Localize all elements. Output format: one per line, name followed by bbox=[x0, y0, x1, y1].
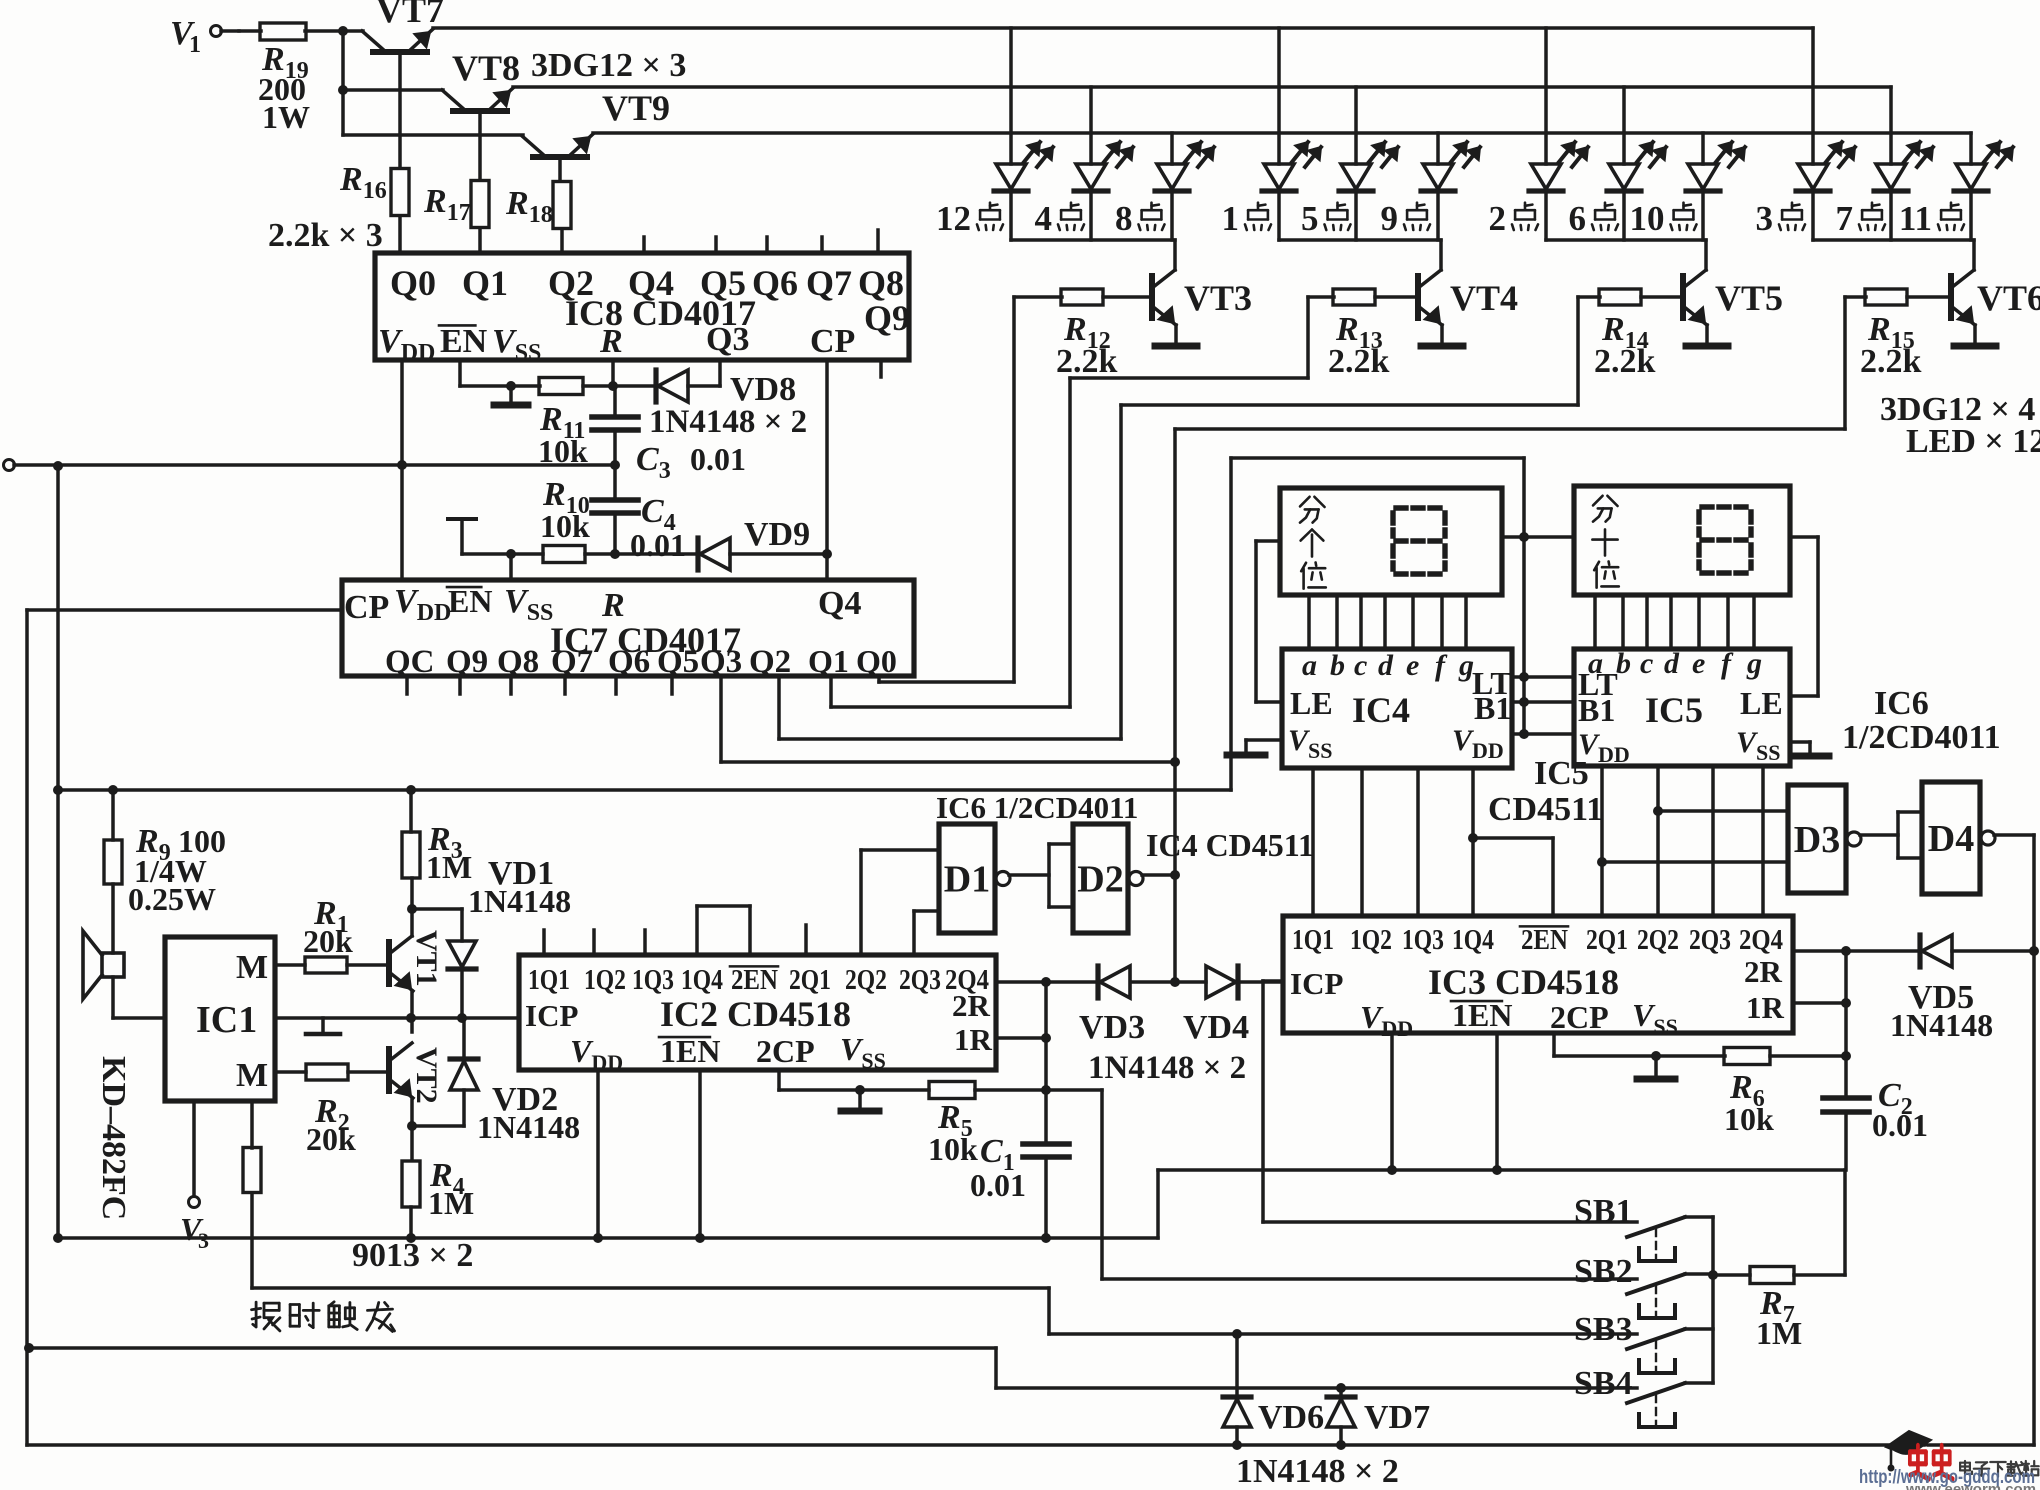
svg-text:VT5: VT5 bbox=[1715, 278, 1783, 318]
IC8 bottom stub bbox=[879, 360, 883, 377]
diode VD1 bbox=[448, 909, 476, 1018]
svg-text:1N4148 × 2: 1N4148 × 2 bbox=[1236, 1453, 1399, 1490]
LED 3点 bbox=[1796, 142, 1855, 191]
wire 2R node vertical bbox=[1844, 951, 1848, 1098]
svg-text:Q2: Q2 bbox=[749, 644, 791, 680]
svg-text:VD6: VD6 bbox=[1258, 1399, 1324, 1436]
wire IC3 VDD down bbox=[1387, 1033, 1397, 1175]
svg-text:SB4: SB4 bbox=[1574, 1365, 1633, 1402]
wire SB bus bbox=[1708, 1217, 1718, 1383]
LED 12点 bbox=[994, 142, 1053, 191]
wire SB2 feed bbox=[1102, 1090, 1637, 1279]
svg-text:KD–482FC: KD–482FC bbox=[95, 1056, 132, 1220]
wire IC1 to V3 bbox=[192, 1101, 196, 1196]
label VT7 bbox=[376, 0, 444, 30]
svg-text:Q1: Q1 bbox=[462, 263, 508, 303]
resistor R18 bbox=[553, 182, 571, 229]
label VT1 bbox=[410, 930, 443, 987]
wire R12 to base bbox=[1103, 295, 1152, 299]
svg-text:2EN: 2EN bbox=[731, 964, 778, 996]
wire VSS tie down bbox=[509, 554, 513, 580]
wire IC4 LE to DS1 bbox=[1256, 541, 1282, 702]
svg-text:1: 1 bbox=[189, 32, 201, 58]
switch SB1 bbox=[1627, 1217, 1713, 1261]
capacitor C4 bbox=[592, 500, 638, 513]
resistor R12 bbox=[1061, 289, 1103, 305]
svg-text:g: g bbox=[1746, 647, 1762, 680]
wire C2 down bbox=[1844, 1112, 1848, 1170]
svg-text:Q5: Q5 bbox=[657, 644, 699, 680]
wire V+ rail bbox=[53, 785, 1231, 795]
label SB2 bbox=[1574, 1253, 1633, 1290]
svg-text:SB3: SB3 bbox=[1574, 1311, 1633, 1348]
wire riser to R13 bbox=[1308, 295, 1334, 299]
label VD8 bbox=[730, 371, 796, 408]
svg-text:VT7: VT7 bbox=[376, 0, 444, 30]
label C4 value bbox=[630, 527, 686, 563]
transistor VT1 bbox=[389, 936, 413, 991]
wire IC3 1EN down bbox=[1492, 1033, 1502, 1175]
svg-text:2.2k: 2.2k bbox=[1056, 343, 1118, 380]
label 3DG12x4 bbox=[1880, 391, 2035, 428]
wire LED 10点 cathode bbox=[1701, 191, 1705, 240]
group 4 cathode bus bbox=[1813, 238, 1974, 242]
DS2 segment pins bbox=[1595, 595, 1754, 649]
wire IC1 M1 bbox=[275, 963, 305, 967]
resistor R2 bbox=[306, 1064, 348, 1080]
wire R16 to IC8 Q0 bbox=[398, 216, 402, 253]
svg-text:10k: 10k bbox=[928, 1131, 978, 1167]
LED 2点 bbox=[1529, 142, 1588, 191]
svg-text:2R: 2R bbox=[1744, 954, 1783, 989]
wire IC4-IC3 BCD c bbox=[1416, 768, 1420, 916]
svg-text:3: 3 bbox=[198, 1228, 209, 1253]
IC3 pin labels bottom bbox=[1360, 997, 1678, 1041]
wire VT1 emitter bbox=[410, 991, 414, 1032]
LED 6点 bbox=[1607, 142, 1666, 191]
wire VT1 collector bbox=[410, 878, 414, 936]
wire D4 output drop bbox=[2032, 835, 2036, 1445]
wire trigger to SB3 bbox=[1049, 1288, 1637, 1339]
svg-text:VT1: VT1 bbox=[410, 930, 443, 987]
wire IC4-IC3 BCD d bbox=[1468, 768, 1478, 916]
IC IC3 CD4518 box bbox=[1283, 916, 1793, 1033]
capacitor C3 bbox=[592, 417, 638, 430]
LED 1点 bbox=[1262, 142, 1321, 191]
wire VT2 emitter bbox=[410, 1098, 414, 1160]
wire C1 down bbox=[1044, 1157, 1048, 1238]
wire rail drop 12点 bbox=[1009, 28, 1013, 164]
wire IC5 VSS ground bbox=[1790, 742, 1829, 756]
wire display feed riser bbox=[1231, 458, 1529, 734]
wire IC4 VSS ground bbox=[1227, 740, 1282, 755]
label VT5 bbox=[1715, 278, 1783, 318]
label SB1 bbox=[1574, 1193, 1633, 1230]
wire R5 to node bbox=[975, 1088, 1046, 1092]
svg-text:0.01: 0.01 bbox=[1872, 1107, 1928, 1143]
svg-text:1W: 1W bbox=[262, 99, 310, 135]
wire B1 link bbox=[1512, 700, 1574, 704]
wire LT link bbox=[1512, 675, 1574, 679]
wire node to SB2 drop bbox=[1046, 1088, 1102, 1092]
switch SB3 bbox=[1627, 1329, 1713, 1373]
capacitor C2 bbox=[1823, 1098, 1869, 1112]
wire R7 to mid rail bbox=[1794, 1170, 1845, 1275]
svg-text:1EN: 1EN bbox=[1452, 997, 1512, 1033]
svg-text:1R: 1R bbox=[954, 1022, 993, 1057]
label R3 bbox=[426, 821, 472, 885]
wire VD5 to D4 drop bbox=[1952, 946, 2039, 956]
svg-text:12: 12 bbox=[936, 199, 971, 238]
svg-text:1EN: 1EN bbox=[660, 1033, 720, 1069]
svg-text:2Q1: 2Q1 bbox=[1586, 924, 1628, 956]
svg-text:Q1: Q1 bbox=[808, 643, 849, 679]
svg-text:3DG12 × 3: 3DG12 × 3 bbox=[531, 47, 686, 84]
wire rail drop 8点 bbox=[1170, 133, 1174, 164]
svg-text:2.2k: 2.2k bbox=[1860, 343, 1922, 380]
svg-text:EN: EN bbox=[440, 323, 488, 360]
gate D1 bbox=[939, 824, 1010, 933]
resistor R16 bbox=[391, 169, 409, 216]
svg-text:1N4148: 1N4148 bbox=[1890, 1007, 1993, 1043]
wire IC2 1EN down bbox=[695, 1070, 705, 1243]
svg-text:R: R bbox=[601, 587, 625, 624]
wire SB4 feed bbox=[24, 1343, 1637, 1393]
svg-text:CP: CP bbox=[810, 323, 855, 360]
label 1点 bbox=[1222, 199, 1272, 238]
wire IC2 VDD down bbox=[593, 1070, 603, 1243]
transistor VT6 bbox=[1951, 270, 1975, 325]
wire bus to VT5 collector bbox=[1704, 240, 1708, 270]
svg-text:2.2k: 2.2k bbox=[1328, 343, 1390, 380]
label SB4 bbox=[1574, 1365, 1633, 1402]
svg-text:b: b bbox=[1616, 647, 1631, 680]
wire D3 input1 bbox=[1658, 809, 1788, 813]
svg-text:IC4: IC4 bbox=[1352, 690, 1410, 730]
label 9013x2 bbox=[352, 1237, 473, 1274]
wire IC7 Q3 to R15 riser bbox=[721, 297, 1845, 767]
svg-text:LED × 12: LED × 12 bbox=[1906, 423, 2040, 460]
wire emitter VT5 bbox=[1705, 325, 1709, 344]
svg-text:1N4148 × 2: 1N4148 × 2 bbox=[1088, 1050, 1246, 1086]
svg-text:1Q3: 1Q3 bbox=[632, 964, 674, 996]
svg-text:EN: EN bbox=[448, 583, 492, 619]
wire R2 to VT2 bbox=[348, 1070, 389, 1074]
wire IC5-IC3 BCD b bbox=[1653, 766, 1663, 916]
wire rail drop 11点 bbox=[1969, 133, 1973, 164]
label R9 bbox=[128, 823, 226, 917]
svg-text:1N4148: 1N4148 bbox=[468, 883, 571, 919]
IC IC2 CD4518 box bbox=[519, 955, 996, 1070]
logo url2 bbox=[1905, 1481, 2036, 1490]
label 1N4148x2 bbox=[649, 404, 807, 440]
wire riser to R14 bbox=[1578, 295, 1600, 299]
label VT2 bbox=[410, 1047, 443, 1104]
label VT9 bbox=[602, 88, 670, 128]
wire display common bbox=[1502, 532, 1574, 542]
wire riser to R15 bbox=[1845, 295, 1866, 299]
capacitor C1 bbox=[1023, 1090, 1069, 1157]
svg-text:20k: 20k bbox=[303, 923, 353, 959]
wire IC1 mid bbox=[275, 1013, 519, 1023]
svg-text:D4: D4 bbox=[1928, 818, 1974, 860]
label R7 bbox=[1756, 1285, 1802, 1351]
label R14 bbox=[1594, 311, 1656, 380]
wire rail drop 9点 bbox=[1436, 133, 1440, 164]
svg-text:IC4 CD4511: IC4 CD4511 bbox=[1146, 827, 1314, 863]
IC7 pin labels top bbox=[344, 583, 861, 626]
wire R17 to IC8 Q1 bbox=[478, 228, 482, 253]
wire rail drop 6点 bbox=[1622, 87, 1626, 164]
label 1N4148x2 mid bbox=[1088, 1050, 1246, 1086]
wire rail drop 2点 bbox=[1544, 28, 1548, 164]
svg-text:d: d bbox=[1664, 647, 1680, 680]
label 2点 bbox=[1489, 199, 1539, 238]
label IC8 CD4017 bbox=[565, 293, 756, 333]
svg-text:1N4148: 1N4148 bbox=[477, 1109, 580, 1145]
svg-text:b: b bbox=[1330, 649, 1345, 682]
svg-text:CP: CP bbox=[344, 589, 389, 626]
label VD5 bbox=[1890, 979, 1993, 1043]
wire IC5-IC3 BCD d bbox=[1761, 766, 1765, 916]
wire trigger out bbox=[252, 1193, 1049, 1288]
wire V1 to R19 bbox=[221, 29, 239, 33]
diode VD6 bbox=[1223, 1334, 1251, 1445]
wire R15 to base bbox=[1907, 295, 1951, 299]
IC3 pin labels top bbox=[1292, 924, 1783, 956]
svg-text:Q8: Q8 bbox=[858, 263, 904, 303]
svg-text:1Q1: 1Q1 bbox=[528, 964, 570, 996]
IC8 label Q9 bbox=[864, 298, 910, 338]
transistor VT3 bbox=[1152, 270, 1176, 325]
IC IC5 CD4511 box bbox=[1574, 649, 1790, 766]
wire IC3 2CP down bbox=[1554, 1033, 1725, 1061]
LED 8点 bbox=[1155, 142, 1214, 191]
wire rail drop 7点 bbox=[1889, 87, 1893, 164]
ground IC8 EN bbox=[494, 386, 528, 405]
wire R18 to IC8 Q2 bbox=[560, 229, 564, 253]
resistor R1 bbox=[305, 957, 347, 973]
label IC5 CD4511 bbox=[1488, 755, 1603, 828]
LED 7点 bbox=[1874, 142, 1933, 191]
gate D2 bbox=[1073, 824, 1143, 933]
svg-text:2Q3: 2Q3 bbox=[1689, 924, 1731, 956]
wire R9 to speaker bbox=[111, 884, 115, 953]
resistor R7 bbox=[1750, 1267, 1794, 1284]
wire bus to VT3 collector bbox=[1173, 240, 1177, 270]
svg-text:2Q1: 2Q1 bbox=[789, 964, 831, 996]
wire D1 input2 bbox=[914, 911, 939, 955]
svg-text:D2: D2 bbox=[1077, 859, 1123, 901]
label 11点 bbox=[1899, 199, 1964, 238]
svg-text:VD7: VD7 bbox=[1364, 1399, 1430, 1436]
wire rail drop 5点 bbox=[1354, 87, 1358, 164]
wire left feed vertical bbox=[53, 461, 63, 1238]
wire R node down bbox=[613, 386, 617, 417]
svg-text:VT4: VT4 bbox=[1450, 278, 1518, 318]
IC2 pin labels bottom bbox=[570, 1031, 886, 1075]
wire R13 to base bbox=[1375, 295, 1418, 299]
svg-text:3: 3 bbox=[1756, 199, 1774, 238]
wire VT9 base bbox=[558, 157, 562, 181]
wire IC3 1R out bbox=[1793, 998, 1851, 1008]
label R5 bbox=[928, 1099, 978, 1167]
IC4 labels bbox=[1288, 665, 1512, 763]
svg-text:VD3: VD3 bbox=[1079, 1009, 1145, 1046]
gate D3 bbox=[1788, 785, 1861, 893]
svg-text:B1: B1 bbox=[1578, 692, 1615, 728]
label R17 bbox=[423, 183, 471, 226]
svg-text:1Q1: 1Q1 bbox=[1292, 924, 1334, 956]
svg-text:VT9: VT9 bbox=[602, 88, 670, 128]
svg-text:IC1: IC1 bbox=[196, 999, 257, 1041]
ground VT4 bbox=[1421, 343, 1463, 350]
svg-text:IC2 CD4518: IC2 CD4518 bbox=[660, 994, 851, 1034]
wire C4 to R junction bbox=[610, 513, 620, 559]
wire VT7 base bbox=[398, 52, 402, 168]
label 3点 bbox=[1756, 199, 1806, 238]
wire LED 8点 cathode bbox=[1170, 191, 1174, 240]
wire C3 node to C4 bbox=[613, 465, 617, 500]
IC8 top stubs bbox=[644, 230, 878, 253]
wire VDD link bbox=[1512, 729, 1574, 739]
wire R node to VD8 bbox=[613, 384, 656, 388]
switch SB4 bbox=[1627, 1383, 1713, 1427]
svg-text:6: 6 bbox=[1569, 199, 1587, 238]
label R11 bbox=[538, 401, 588, 469]
terminal CP input bbox=[4, 460, 15, 471]
transistor VT4 bbox=[1418, 270, 1442, 325]
svg-text:VT2: VT2 bbox=[410, 1047, 443, 1104]
label VD1 bbox=[468, 855, 571, 919]
svg-text:2CP: 2CP bbox=[756, 1033, 815, 1069]
wire IC2 2Q4 out bbox=[996, 977, 1098, 987]
svg-text:1Q4: 1Q4 bbox=[681, 964, 723, 996]
IC2 labels bbox=[525, 988, 993, 1057]
svg-text:D1: D1 bbox=[944, 859, 990, 901]
svg-text:2: 2 bbox=[1489, 199, 1507, 238]
logo 虫虫 bbox=[1910, 1445, 1953, 1479]
svg-text:D3: D3 bbox=[1794, 819, 1840, 861]
wire R1 to VT1 bbox=[347, 963, 389, 967]
diode VD7 bbox=[1327, 1388, 1355, 1445]
transistor VT8 bbox=[442, 88, 513, 111]
label 分个位 bbox=[1300, 497, 1326, 589]
label 报时触发 bbox=[252, 1302, 395, 1332]
svg-text:LE: LE bbox=[1290, 685, 1333, 721]
label VD7 bbox=[1364, 1399, 1430, 1436]
wire IC7 CP input bbox=[27, 608, 342, 612]
label 5点 bbox=[1301, 199, 1351, 238]
ground VT5 bbox=[1686, 343, 1728, 350]
wire R4 to rail bbox=[406, 1207, 416, 1243]
svg-text:20k: 20k bbox=[306, 1121, 356, 1157]
wire rail to display feed bbox=[1229, 458, 1233, 790]
wire IC7 Q1 to R13 riser bbox=[831, 297, 1308, 707]
svg-text:0.01: 0.01 bbox=[630, 527, 686, 563]
wire rail to R3 bbox=[409, 790, 413, 832]
wire D3 out to D4 bbox=[1860, 812, 1922, 858]
diode VD5 bbox=[1920, 935, 1952, 967]
wire rail drop 10点 bbox=[1701, 133, 1705, 164]
label SB3 bbox=[1574, 1311, 1633, 1348]
wire VD9 to CP riser bbox=[730, 549, 832, 559]
svg-text:VD8: VD8 bbox=[730, 371, 796, 408]
wire VT8 base bbox=[478, 111, 482, 180]
wire R11 to R node bbox=[583, 384, 613, 388]
label R6 bbox=[1724, 1069, 1774, 1137]
svg-text:1Q4: 1Q4 bbox=[1452, 924, 1494, 956]
svg-text:IC6: IC6 bbox=[1874, 685, 1929, 722]
svg-text:2.2k × 3: 2.2k × 3 bbox=[268, 217, 383, 254]
IC IC8 CD4017 box bbox=[375, 253, 909, 360]
ground VT6 bbox=[1954, 343, 1996, 350]
svg-text:1M: 1M bbox=[1756, 1315, 1802, 1351]
wire LED 11点 cathode bbox=[1969, 191, 1973, 240]
group 2 cathode bus bbox=[1279, 238, 1441, 242]
wire IC1 pin2 down bbox=[250, 1101, 254, 1148]
wire IC8 CP to IC7 Q4 bbox=[825, 360, 829, 580]
wire bus to VT4 collector bbox=[1439, 240, 1443, 270]
label R1 bbox=[303, 895, 353, 959]
label LEDx12 bbox=[1906, 423, 2040, 460]
label R13 bbox=[1328, 311, 1390, 380]
group 3 cathode bus bbox=[1546, 238, 1706, 242]
svg-text:Q6: Q6 bbox=[752, 263, 798, 303]
svg-text:IC6 1/2CD4011: IC6 1/2CD4011 bbox=[936, 790, 1138, 825]
label IC7 CD4017 bbox=[550, 620, 741, 660]
diode VD8 bbox=[656, 370, 688, 402]
svg-text:CD4511: CD4511 bbox=[1488, 791, 1603, 828]
IC2 pin labels top bbox=[528, 964, 989, 996]
label 分十位 bbox=[1592, 496, 1618, 588]
LED 4点 bbox=[1074, 142, 1133, 191]
svg-text:Q9: Q9 bbox=[864, 298, 910, 338]
svg-text:c: c bbox=[1640, 647, 1653, 680]
label 3DG12x3 bbox=[531, 47, 686, 84]
IC2 top stubs bbox=[544, 925, 806, 955]
svg-text:ICP: ICP bbox=[1290, 966, 1343, 1001]
DS1 segment pins bbox=[1309, 595, 1466, 649]
svg-text:M: M bbox=[236, 1057, 268, 1094]
antenna tie IC7 EN bbox=[448, 519, 476, 554]
ground IC3 2CP bbox=[1637, 1056, 1675, 1079]
wire rail drop 4点 bbox=[1089, 87, 1093, 164]
svg-text:B1: B1 bbox=[1474, 690, 1511, 726]
wire LED 3点 cathode bbox=[1811, 191, 1815, 240]
wire input rail bbox=[14, 460, 620, 470]
label VD4 bbox=[1183, 1009, 1249, 1046]
svg-text:Q4: Q4 bbox=[818, 585, 861, 622]
speaker BL bbox=[83, 931, 124, 999]
svg-text:c: c bbox=[1354, 649, 1367, 682]
terminal V3 bbox=[180, 1197, 209, 1254]
resistor R10 bbox=[543, 546, 585, 563]
wire riser to R12 bbox=[1014, 295, 1062, 299]
wire to VT8 collector bbox=[338, 85, 443, 95]
LED 11点 bbox=[1954, 142, 2013, 191]
resistor R13 bbox=[1333, 289, 1375, 305]
wire LED 4点 cathode bbox=[1089, 191, 1093, 240]
wire 9013 rail bbox=[53, 1233, 1158, 1243]
svg-text:10k: 10k bbox=[540, 508, 590, 544]
label 1N4148x2 bottom bbox=[1236, 1453, 1399, 1490]
label IC4 CD4511 bbox=[1146, 827, 1314, 863]
wire IC5-IC3 BCD a bbox=[1597, 766, 1607, 916]
wire R10 to VD9 bbox=[585, 552, 698, 556]
svg-text:Q3: Q3 bbox=[706, 321, 749, 358]
wire rail3 from VT9 emitter bbox=[593, 131, 1971, 135]
